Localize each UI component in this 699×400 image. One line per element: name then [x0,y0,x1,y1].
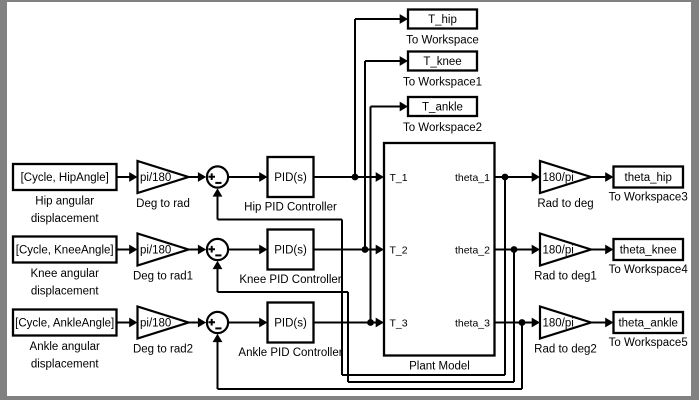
svg-text:T_knee: T_knee [423,56,461,68]
svg-text:T_3: T_3 [390,317,408,329]
svg-text:theta_1: theta_1 [455,172,490,184]
svg-text:Deg to rad1: Deg to rad1 [133,271,193,283]
svg-text:pi/180: pi/180 [140,245,171,257]
svg-text:To Workspace5: To Workspace5 [609,337,688,349]
svg-text:Rad to deg: Rad to deg [537,198,593,210]
svg-text:To Workspace: To Workspace [406,35,479,47]
svg-text:Hip PID Controller: Hip PID Controller [244,202,337,214]
svg-text:To Workspace4: To Workspace4 [609,264,689,276]
svg-text:Knee PID Controller: Knee PID Controller [239,274,341,286]
svg-text:theta_knee: theta_knee [620,245,677,257]
svg-text:[Cycle, KneeAngle]: [Cycle, KneeAngle] [16,245,114,257]
svg-text:displacement: displacement [31,359,100,371]
svg-text:Rad to deg2: Rad to deg2 [534,344,597,356]
svg-text:Hip angular: Hip angular [35,196,94,208]
svg-text:To Workspace3: To Workspace3 [609,192,688,204]
svg-text:180/pi: 180/pi [543,245,574,257]
svg-text:Ankle PID Controller: Ankle PID Controller [238,347,342,359]
svg-text:pi/180: pi/180 [140,318,171,330]
svg-text:T_2: T_2 [390,244,408,256]
svg-text:theta_hip: theta_hip [625,172,672,184]
svg-text:T_1: T_1 [390,172,408,184]
svg-text:T_ankle: T_ankle [422,102,463,114]
svg-text:To Workspace1: To Workspace1 [403,77,482,89]
svg-text:To Workspace2: To Workspace2 [403,122,482,134]
svg-text:T_hip: T_hip [428,14,457,26]
svg-text:180/pi: 180/pi [543,318,574,330]
svg-text:[Cycle, AnkleAngle]: [Cycle, AnkleAngle] [15,318,114,330]
svg-text:PID(s): PID(s) [274,172,307,184]
svg-text:displacement: displacement [31,213,100,225]
svg-text:Plant Model: Plant Model [409,361,470,373]
svg-text:theta_3: theta_3 [455,317,490,329]
svg-text:Ankle angular: Ankle angular [30,341,100,353]
svg-text:theta_2: theta_2 [455,244,490,256]
svg-text:displacement: displacement [31,286,100,298]
svg-text:PID(s): PID(s) [274,318,307,330]
svg-text:Knee angular: Knee angular [30,268,99,280]
svg-text:Deg to rad2: Deg to rad2 [133,344,193,356]
svg-text:PID(s): PID(s) [274,245,307,257]
svg-text:180/pi: 180/pi [543,172,574,184]
svg-text:theta_ankle: theta_ankle [618,318,677,330]
svg-text:Rad to deg1: Rad to deg1 [534,271,597,283]
svg-text:[Cycle, HipAngle]: [Cycle, HipAngle] [21,172,109,184]
svg-text:pi/180: pi/180 [140,172,171,184]
svg-text:Deg to rad: Deg to rad [136,198,190,210]
